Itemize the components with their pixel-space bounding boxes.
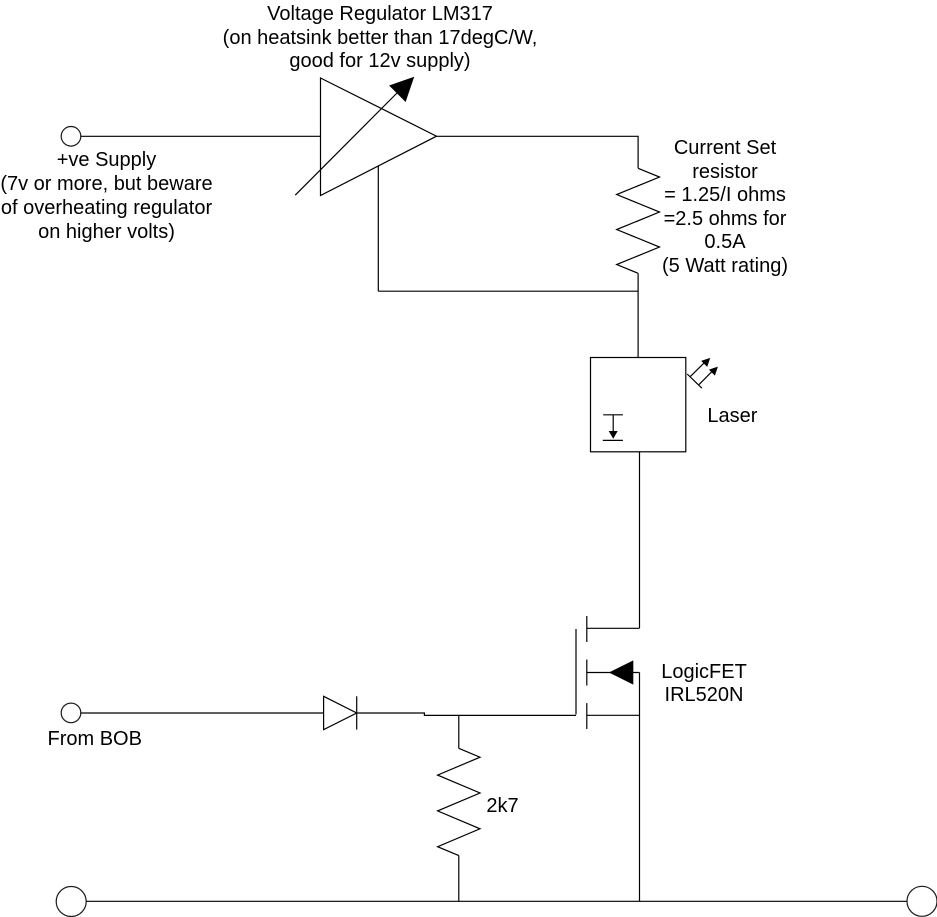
label: 2k7 value — [486, 794, 518, 818]
terminal: From BOB input — [61, 703, 81, 723]
label: From BOB — [48, 727, 142, 751]
wire: supply terminal to U1 input — [81, 135, 321, 137]
transistor Q1 IRL520N — [576, 616, 640, 729]
wire: R1 bottom to laser anode — [637, 273, 639, 357]
Q1 channel segment middle — [586, 660, 588, 686]
Q1 body lead with arrow — [587, 672, 640, 674]
diode D1 — [324, 696, 357, 729]
terminal: ground right — [907, 886, 937, 916]
label: LogicFET IRL520N — [554, 661, 854, 707]
label: Current Set resistor value — [575, 137, 875, 278]
Q1 channel segment bottom — [586, 703, 588, 729]
terminal: +ve supply input — [61, 127, 81, 147]
Q1 drain lead — [587, 627, 640, 629]
wire: U1 output to R1 top — [437, 136, 639, 168]
laser LD1 emission arrows — [687, 358, 718, 388]
label: +ve Supply note — [0, 148, 257, 244]
wire: gate junction to R2 top — [458, 715, 460, 748]
wire: U1 adjust tap — [377, 166, 379, 291]
terminal: ground left — [56, 887, 86, 917]
label: Laser — [707, 404, 757, 428]
regulator U1 LM317 — [295, 77, 436, 196]
wire: R2 bottom to ground rail — [458, 856, 460, 902]
laser LD1 — [591, 358, 718, 452]
Q1 channel segment top — [586, 616, 588, 642]
wire: adjust feedback — [378, 290, 638, 292]
wire: From BOB terminal to D1 anode — [81, 712, 324, 714]
Q1 body/source vertical — [639, 673, 641, 716]
wire: ground rail — [86, 900, 907, 902]
wire: laser cathode to Q1 drain — [639, 452, 641, 629]
resistor R2 2k7 — [438, 748, 480, 855]
laser LD1 package — [591, 358, 686, 452]
Q1 source lead — [587, 714, 640, 716]
wire: Q1 source to ground rail — [639, 715, 641, 901]
wire: D1 cathode to Q1 gate — [357, 713, 576, 715]
laser LD1 diode symbol — [603, 415, 623, 441]
Q1 gate bar — [575, 629, 577, 715]
label: Voltage Regulator LM317 heading — [180, 3, 580, 74]
resistor R1 current set — [617, 168, 660, 273]
